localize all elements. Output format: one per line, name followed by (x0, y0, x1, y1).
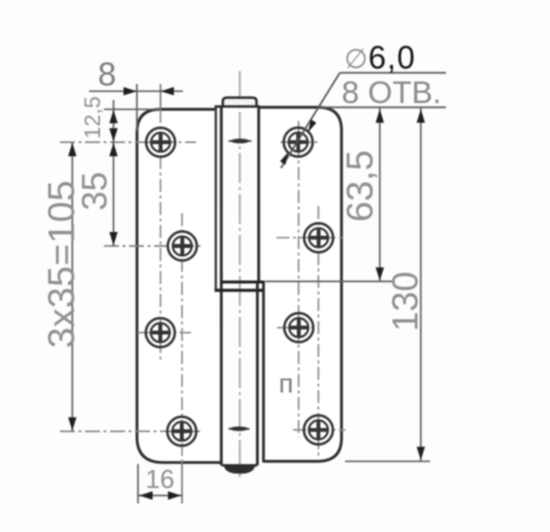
svg-text:6,0: 6,0 (368, 40, 415, 76)
screw hole L1 (146, 128, 175, 157)
knuckle bottom cap (221, 464, 257, 466)
node: row 3 right centerline (277, 327, 314, 329)
dimension 3x35=105: arrows (68, 143, 76, 156)
node: row 4 left centerline (60, 430, 201, 432)
screw hole L2 (168, 232, 197, 261)
svg-text:3x35=105: 3x35=105 (40, 180, 82, 348)
dimension 16: left extension (137, 464, 139, 504)
knuckle upper right wall (257, 107, 260, 283)
svg-text:8 ОТВ.: 8 ОТВ. (342, 74, 442, 110)
dimension 8: extension line left (136, 84, 138, 131)
dimension 130: top extension (320, 106, 446, 108)
svg-text:8: 8 (98, 56, 116, 93)
node: row 3 left centerline (138, 332, 192, 334)
knuckle lower right wall (256, 282, 259, 465)
node: column 3 centerline (298, 121, 300, 437)
hole callout: arrows at circle (308, 119, 317, 132)
screw hole R2 (304, 223, 333, 252)
node: row 2 left centerline (104, 245, 201, 247)
node: column 1 centerline (160, 84, 162, 110)
dimension 8: line (89, 90, 183, 92)
knuckle joint upper seam (220, 280, 264, 283)
svg-text:∅: ∅ (344, 44, 368, 74)
knuckle inner wall full height (220, 107, 223, 466)
lens marker on barrel row1 (229, 140, 252, 142)
screw hole L4 (167, 417, 196, 446)
wire: barrel vertical centerline (239, 71, 241, 481)
dimension 8: arrows (124, 87, 137, 95)
hole callout: leader shelf (340, 72, 446, 74)
dimension 3x35=105: line (71, 142, 73, 431)
dimension 35: line (113, 142, 115, 246)
right leaf plate outline (259, 107, 342, 461)
svg-text:п: п (279, 369, 294, 399)
dimension 63,5: arrows (376, 109, 384, 122)
screw hole L3 (146, 318, 175, 347)
dimension 16: arrows (139, 491, 152, 499)
node: row 1 left centerline (60, 141, 196, 143)
dimension 63,5: bottom extension (265, 280, 392, 282)
node: row 2 right centerline (277, 237, 346, 239)
svg-text:63,5: 63,5 (340, 150, 381, 222)
screw hole R1 (284, 128, 313, 157)
screw hole R4 (304, 415, 333, 444)
svg-text:16: 16 (146, 464, 175, 494)
dimension 12,5: top edge extension (104, 108, 160, 110)
dimension 12,5: line (113, 100, 115, 152)
left leaf plate outline (137, 109, 221, 462)
hole callout: leader diagonal (281, 73, 340, 168)
svg-text:12,5: 12,5 (80, 96, 105, 139)
dimension 130: bottom extension (345, 460, 430, 462)
svg-text:130: 130 (385, 271, 426, 331)
node: column 2 centerline (181, 213, 183, 462)
knuckle upper-left outer wall (215, 107, 217, 291)
dimension 63,5: line (379, 108, 381, 281)
node: row 1 right centerline (281, 141, 321, 143)
dimension 35: arrows (109, 143, 117, 156)
screw hole R3 (284, 313, 313, 342)
dimension 12,5: arrows (109, 110, 117, 123)
knuckle joint lower seam (215, 289, 263, 292)
node: column 4 centerline (317, 206, 319, 458)
node: row 4 right centerline (293, 429, 346, 431)
dimension 130: arrows (417, 109, 425, 122)
pin top cap (223, 98, 257, 107)
dimension 16: line (138, 495, 182, 497)
lens marker on barrel row4 (229, 428, 250, 430)
knuckle top seat line (215, 105, 260, 107)
dimension 130: line (420, 108, 422, 461)
